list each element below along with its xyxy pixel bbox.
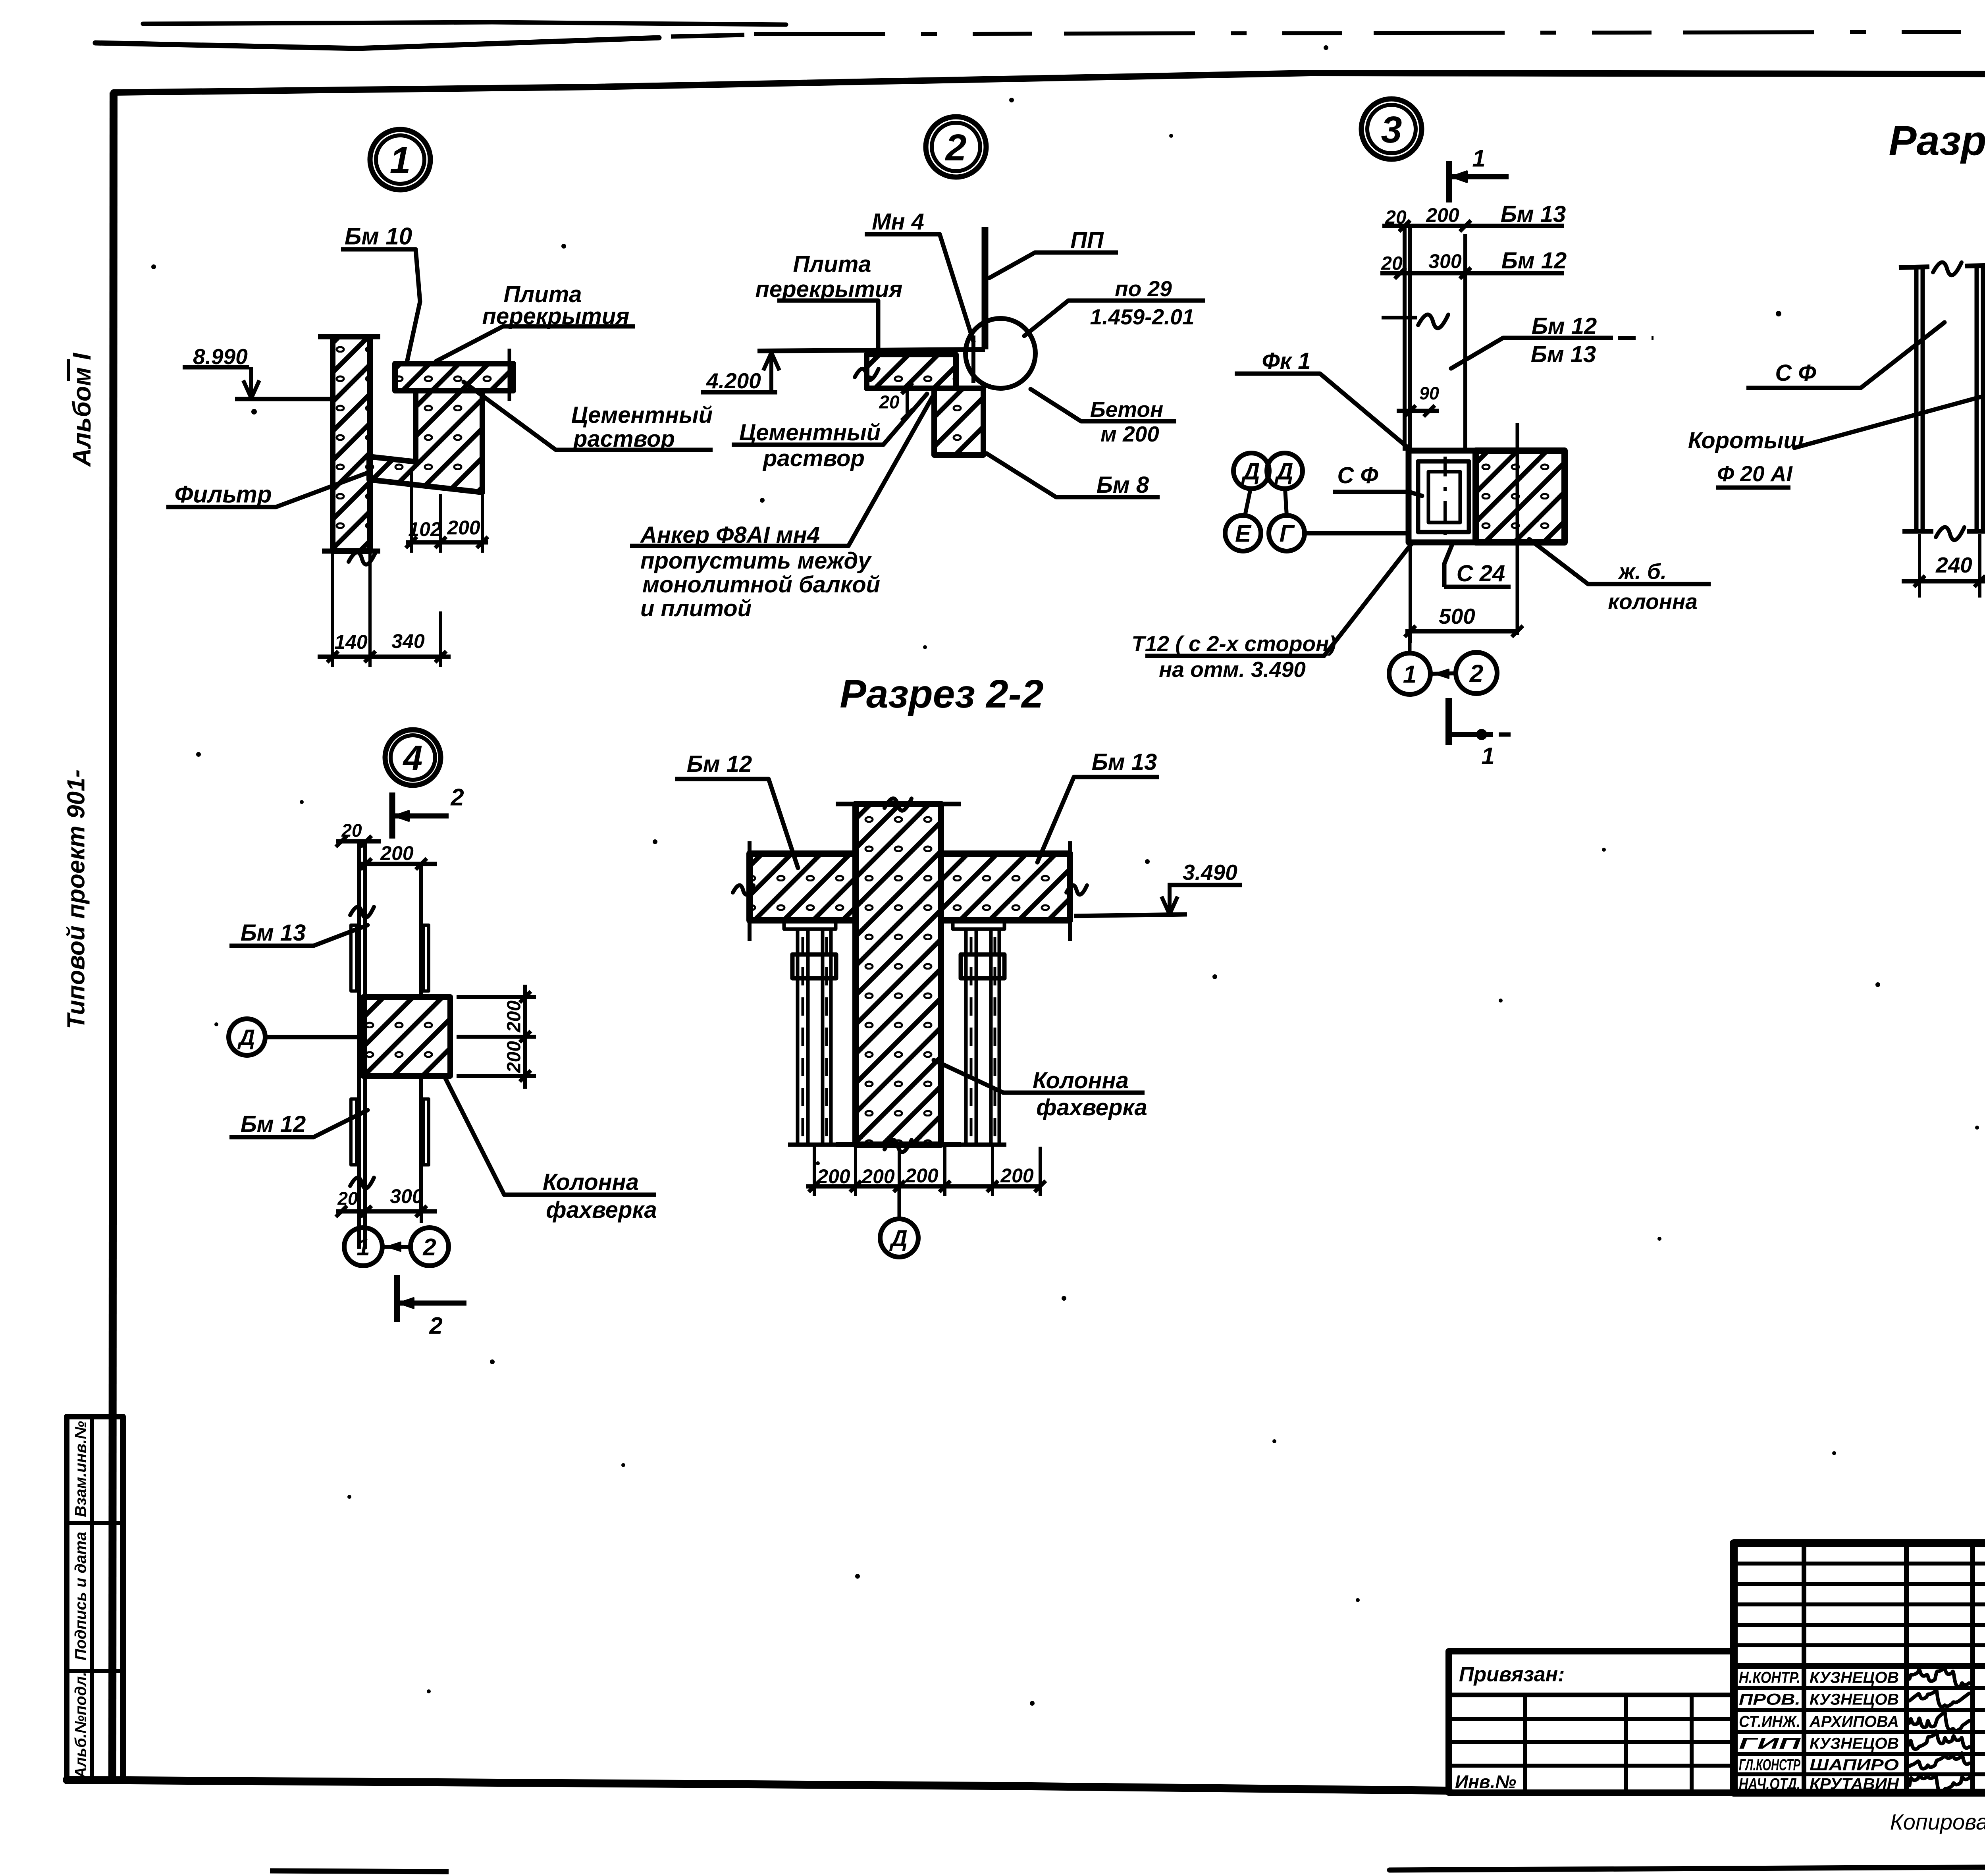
svg-text:20: 20 xyxy=(337,1188,358,1209)
svg-text:Бетон: Бетон xyxy=(1090,397,1164,422)
leader Бм 12 (detail 4) xyxy=(314,1110,368,1137)
svg-text:КУЗНЕЦОВ: КУЗНЕЦОВ xyxy=(1810,1669,1899,1686)
svg-text:4.200: 4.200 xyxy=(706,368,761,393)
leader Плита перекрытия (detail 2) xyxy=(876,301,881,353)
svg-text:Бм 12: Бм 12 xyxy=(1501,248,1567,274)
svg-text:Взам.инв.№: Взам.инв.№ xyxy=(72,1421,89,1517)
section mark 1 (top, detail 3) xyxy=(1446,161,1452,202)
detail bubble 2 xyxy=(926,117,986,177)
node circle Д (detail 4) xyxy=(229,1019,265,1055)
title block small grid rows (upper) xyxy=(1734,1562,1985,1566)
axis line from Д to block xyxy=(265,1035,363,1039)
detail 1 wall bottom cap xyxy=(322,549,380,554)
leader С Ф (section 1-1) xyxy=(1861,322,1945,388)
svg-text:Е: Е xyxy=(1235,521,1252,547)
leader Плита перекрытия (detail 1) xyxy=(436,326,503,361)
leader Бм 12/13 (detail 3) xyxy=(1451,338,1503,368)
weld detail bubble по 29 xyxy=(966,318,1035,388)
svg-text:3: 3 xyxy=(1381,109,1402,151)
svg-text:90: 90 xyxy=(1419,383,1439,403)
svg-text:240: 240 xyxy=(1935,553,1972,577)
svg-text:2: 2 xyxy=(450,784,464,811)
svg-text:200: 200 xyxy=(1000,1165,1034,1187)
svg-text:Цементный: Цементный xyxy=(739,420,881,445)
svg-text:1.459-2.01: 1.459-2.01 xyxy=(1090,305,1195,329)
svg-text:м 200: м 200 xyxy=(1100,422,1159,446)
svg-text:1: 1 xyxy=(357,1234,370,1261)
svg-text:ГЛ.КОНСТР: ГЛ.КОНСТР xyxy=(1739,1756,1800,1774)
detail 3 bottom line under channel xyxy=(1409,540,1565,546)
svg-text:АРХИПОВА: АРХИПОВА xyxy=(1809,1713,1899,1730)
svg-text:С 24: С 24 xyxy=(1457,561,1505,586)
section 2-2 left hanger legs xyxy=(796,929,800,1145)
svg-text:Бм 12: Бм 12 xyxy=(241,1111,306,1137)
svg-text:4: 4 xyxy=(403,738,423,778)
svg-text:Г: Г xyxy=(1280,521,1295,547)
svg-text:Колонна: Колонна xyxy=(1033,1068,1129,1093)
leader ПП xyxy=(989,253,1035,278)
section 1-1 wall (double lines) xyxy=(1914,267,1919,531)
leader Колонна фахверка (detail 4) xyxy=(445,1078,504,1195)
svg-text:Ф 20 АI: Ф 20 АI xyxy=(1717,461,1793,486)
svg-text:102: 102 xyxy=(408,518,441,540)
svg-text:Инв.№: Инв.№ xyxy=(1455,1772,1516,1792)
svg-text:200: 200 xyxy=(1426,204,1459,226)
steel channel assembly СФ (detail 3) xyxy=(1409,451,1476,542)
detail 2 slab top line xyxy=(757,349,985,351)
detail 1 monolithic beam (hatched) xyxy=(369,391,482,492)
detail 4 wall break squiggles xyxy=(350,907,374,918)
svg-text:20: 20 xyxy=(1381,253,1403,274)
svg-text:С Ф: С Ф xyxy=(1337,463,1378,488)
leader Колонна фахверка (section 2-2) xyxy=(934,1060,1003,1093)
detail 4 fachwerk column block (hatched) xyxy=(363,997,450,1076)
svg-text:Подпись и дата: Подпись и дата xyxy=(72,1532,89,1660)
svg-text:1: 1 xyxy=(1403,661,1416,688)
axis line above circle 1 xyxy=(1408,631,1412,653)
detail 1 wall (hatched) xyxy=(333,337,370,551)
svg-text:300: 300 xyxy=(390,1185,423,1207)
svg-text:200: 200 xyxy=(503,1041,524,1073)
detail 3 wall lines xyxy=(1403,226,1407,451)
leader Бетон м 200 xyxy=(1031,389,1081,421)
svg-text:Колонна: Колонна xyxy=(543,1169,639,1195)
svg-text:раствор: раствор xyxy=(762,445,865,471)
detail 2 slab left break squiggle xyxy=(855,369,879,380)
svg-text:С Ф: С Ф xyxy=(1775,360,1816,386)
leader Бм 12 (section 2-2) xyxy=(769,779,798,868)
section 2-2 level line 3.490 xyxy=(1074,914,1187,916)
leader Цементный раствор (detail 1) xyxy=(464,382,556,450)
svg-text:Д: Д xyxy=(237,1025,255,1050)
section mark 2 (bottom, detail 4) xyxy=(394,1275,400,1322)
leader Бм 13 (section 2-2) xyxy=(1037,777,1074,862)
column axis line (detail 3) xyxy=(1516,423,1519,635)
svg-text:200: 200 xyxy=(380,842,414,864)
svg-text:Бм 13: Бм 13 xyxy=(241,920,306,946)
line from node Г to channel xyxy=(1305,531,1409,536)
svg-text:Разрез 1-1: Разрез 1-1 xyxy=(1889,118,1985,164)
section 2-2 left legs bottom cap xyxy=(788,1143,838,1147)
svg-text:1: 1 xyxy=(1472,145,1485,172)
detail 1 slab right extension line xyxy=(508,349,511,401)
scan artifact top line 2 xyxy=(95,38,659,48)
section 2-2 right slab Бм13 (hatched) xyxy=(941,854,1070,920)
detail 2 monolithic beam Бм8 (hatched) xyxy=(934,388,983,455)
section 2-2 left coupler xyxy=(792,954,836,978)
svg-text:НАЧ.ОТД.: НАЧ.ОТД. xyxy=(1739,1775,1800,1793)
svg-text:Фильтр: Фильтр xyxy=(175,481,272,508)
svg-text:фахверка: фахверка xyxy=(1036,1095,1147,1120)
sheet frame bottom border xyxy=(67,1780,1449,1791)
leader ж.б. колонна xyxy=(1529,539,1588,584)
detail bubble 3 xyxy=(1361,99,1422,159)
svg-text:Альб.№подл.: Альб.№подл. xyxy=(72,1672,89,1779)
svg-text:300: 300 xyxy=(1428,250,1462,272)
svg-text:200: 200 xyxy=(503,1001,524,1033)
svg-text:Типовой проект 901-: Типовой проект 901- xyxy=(62,769,90,1029)
svg-text:Бм 8: Бм 8 xyxy=(1097,472,1149,498)
detail 1 floor slab (hatched) xyxy=(395,364,513,391)
svg-text:Привязан:: Привязан: xyxy=(1459,1663,1565,1686)
detail 2 floor slab (hatched) xyxy=(867,355,956,388)
svg-text:Плита: Плита xyxy=(793,251,871,277)
annex table Привязан xyxy=(1449,1651,1734,1793)
node circle Е xyxy=(1225,515,1261,551)
svg-text:Мн 4: Мн 4 xyxy=(872,209,924,235)
section 2-2 right hanger legs xyxy=(964,929,968,1145)
svg-text:монолитной балкой: монолитной балкой xyxy=(642,572,880,598)
svg-text:Бм 13: Бм 13 xyxy=(1531,341,1596,367)
node connector links xyxy=(1245,489,1251,515)
svg-text:ПП: ПП xyxy=(1070,228,1104,253)
section mark 1 (bottom, detail 3) xyxy=(1445,698,1452,745)
leader Бм 10 xyxy=(407,249,420,362)
svg-text:КРУТАВИН: КРУТАВИН xyxy=(1810,1775,1899,1793)
svg-text:Бм 13: Бм 13 xyxy=(1501,201,1566,227)
svg-text:СТ.ИНЖ.: СТ.ИНЖ. xyxy=(1739,1713,1800,1730)
svg-text:Разрез 2-2: Разрез 2-2 xyxy=(840,672,1043,716)
svg-text:Цементный: Цементный xyxy=(571,402,713,428)
leader Бм 13 (detail 4) xyxy=(314,925,368,946)
detail 2 anchor mark inside bubble xyxy=(971,335,975,383)
section 2-2 right slab end extension xyxy=(1068,841,1072,941)
node circle Г xyxy=(1269,515,1305,551)
svg-text:ж. б.: ж. б. xyxy=(1618,559,1667,584)
section 2-2 fachwerk column (hatched) xyxy=(856,804,941,1145)
svg-text:Т12 ( с 2-х сторон): Т12 ( с 2-х сторон) xyxy=(1131,631,1336,656)
svg-text:пропустить между: пропустить между xyxy=(640,548,872,574)
scan specks xyxy=(251,409,257,415)
title block outer frame xyxy=(1734,1543,1985,1793)
svg-text:2: 2 xyxy=(945,127,967,169)
section 2-2 right coupler xyxy=(961,954,1004,978)
svg-text:Д: Д xyxy=(1241,458,1260,485)
svg-text:140: 140 xyxy=(334,631,368,653)
svg-text:Копировал: Копировал xyxy=(1890,1809,1985,1834)
svg-text:3.490: 3.490 xyxy=(1183,860,1237,885)
section 2-2 column top cap with break xyxy=(836,802,885,806)
svg-text:200: 200 xyxy=(905,1165,939,1187)
svg-text:Н.КОНТР.: Н.КОНТР. xyxy=(1739,1669,1800,1686)
section mark 2 (top, detail 4) xyxy=(389,792,395,839)
section 2-2 left slab Бм12 (hatched) xyxy=(750,854,856,920)
node circle Д (right) xyxy=(1267,453,1303,489)
detail 1 wall break squiggle xyxy=(349,552,376,565)
svg-text:Бм 12: Бм 12 xyxy=(1532,313,1597,339)
bottom-left vertical stamp table xyxy=(67,1417,123,1782)
leader Мн 4 xyxy=(940,234,973,341)
title block main row line xyxy=(1734,1663,1985,1669)
svg-text:2: 2 xyxy=(422,1234,436,1261)
svg-text:Бм 12: Бм 12 xyxy=(687,751,752,777)
svg-text:перекрытия: перекрытия xyxy=(755,276,903,302)
svg-text:фахверка: фахверка xyxy=(546,1197,657,1223)
bottom scan line left segment xyxy=(270,1871,449,1872)
svg-text:КУЗНЕЦОВ: КУЗНЕЦОВ xyxy=(1810,1735,1899,1752)
detail bubble 4 xyxy=(385,730,441,785)
detail 1 level line 8.990 xyxy=(235,397,333,401)
leader Бм 8 xyxy=(987,453,1056,497)
leader Фк 1 (detail 3) xyxy=(1320,374,1410,449)
leader Анкер xyxy=(848,394,934,546)
leader по 29 xyxy=(1024,301,1068,336)
annex table grid xyxy=(1523,1695,1527,1793)
svg-text:Д: Д xyxy=(1274,458,1293,485)
leader Фильтр xyxy=(276,472,368,507)
svg-text:по 29: по 29 xyxy=(1115,276,1172,301)
sheet frame left border xyxy=(112,93,114,1780)
svg-text:на отм. 3.490: на отм. 3.490 xyxy=(1159,657,1306,682)
svg-text:500: 500 xyxy=(1439,604,1475,629)
svg-text:2: 2 xyxy=(429,1313,442,1339)
svg-text:Коротыш: Коротыш xyxy=(1688,428,1804,453)
section 1-1 wall top cap with break xyxy=(1899,267,1929,268)
svg-text:2: 2 xyxy=(1469,660,1483,687)
detail 2 ПП vertical element xyxy=(982,227,989,349)
svg-text:Фк 1: Фк 1 xyxy=(1262,348,1310,374)
svg-text:20: 20 xyxy=(879,392,900,413)
detail bubble 1 xyxy=(370,129,430,190)
leader С 24 xyxy=(1444,542,1453,564)
svg-text:Бм 13: Бм 13 xyxy=(1092,749,1157,775)
svg-text:ПРОВ.: ПРОВ. xyxy=(1739,1691,1800,1708)
detail 4 wall (double vertical lines) xyxy=(357,841,361,1249)
leader Цементный раствор (detail 2) xyxy=(883,394,927,445)
svg-text:КУЗНЕЦОВ: КУЗНЕЦОВ xyxy=(1810,1691,1899,1708)
detail 4 side panel stubs xyxy=(351,925,357,991)
svg-text:200: 200 xyxy=(447,517,480,539)
svg-text:340: 340 xyxy=(391,630,425,652)
svg-text:ШАПИРО: ШАПИРО xyxy=(1810,1756,1899,1774)
section 2-2 left slab end extension xyxy=(748,841,752,941)
axis circles 1 and 2 (detail 3) xyxy=(1389,653,1430,694)
axis circles 1 and 2 (detail 4) xyxy=(344,1228,382,1266)
leader Коротыш xyxy=(1794,397,1980,448)
section 2-2 column bottom cap with break xyxy=(836,1142,885,1147)
svg-text:ГИП: ГИП xyxy=(1739,1735,1801,1752)
title block name rows xyxy=(1734,1686,1985,1690)
detail 3 wall break squiggle xyxy=(1418,314,1448,328)
node circle Д (left) xyxy=(1233,453,1269,489)
sheet frame top border xyxy=(114,73,1985,93)
section 2-2 left hanger plate xyxy=(784,920,836,929)
section 1-1 wall bottom cap with break xyxy=(1902,529,1933,534)
svg-text:колонна: колонна xyxy=(1608,589,1698,614)
bottom scan line right segment xyxy=(1389,1843,1985,1870)
svg-text:и плитой: и плитой xyxy=(640,596,752,621)
section 2-2 right hanger plate xyxy=(953,920,1004,929)
svg-text:1: 1 xyxy=(1481,743,1494,769)
section 2-2 right legs bottom cap xyxy=(957,1143,1006,1147)
dimension 200/200 vertical (detail 4) xyxy=(457,995,536,999)
reinforced concrete column (hatched, detail 3) xyxy=(1476,451,1565,542)
axis circle Д (section 2-2) xyxy=(880,1219,918,1257)
svg-text:Альбом I: Альбом I xyxy=(67,353,96,467)
title block small grid verticals xyxy=(1802,1543,1806,1793)
scan artifact top line 1 xyxy=(143,22,786,25)
svg-text:Бм 10: Бм 10 xyxy=(345,223,412,250)
svg-text:Д: Д xyxy=(889,1226,908,1251)
leader Т12 xyxy=(1324,542,1413,656)
svg-text:1: 1 xyxy=(390,139,411,181)
